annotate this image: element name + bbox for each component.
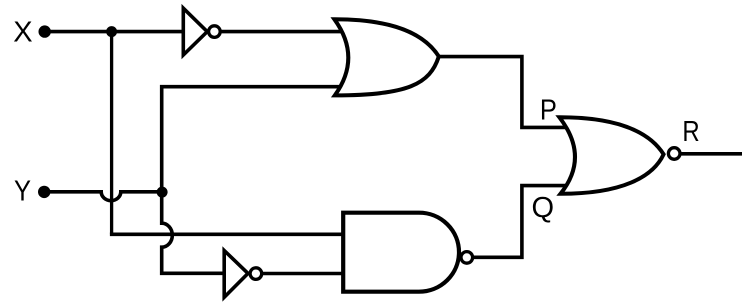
inverter U1 (NOT gate, top) <box>183 8 207 55</box>
wire: NOR gate output R <box>680 152 742 156</box>
wire: inverter U2 output to NAND bottom input <box>262 272 351 276</box>
wire: inverter U1 output to OR gate top input <box>220 30 356 34</box>
wire: NAND output to node Q into NOR gate <box>473 186 567 258</box>
NOR gate U5 (right) <box>559 117 663 194</box>
inverter U1 bubble <box>209 26 221 38</box>
wire: X branch to NAND top input <box>110 233 350 237</box>
OR gate U3 (top middle) <box>334 19 438 95</box>
junction dot on Y line <box>157 187 168 198</box>
NAND gate U4 (bottom middle) <box>343 213 459 292</box>
wire: X input to inverter U1 <box>45 30 184 34</box>
terminal dot X <box>39 25 51 37</box>
wire: Y input with hop over X branch <box>44 192 162 201</box>
NOR gate U5 bubble <box>668 148 680 160</box>
svg-text:Q: Q <box>532 192 555 224</box>
junction dot on X line <box>106 26 117 37</box>
terminal dot Y <box>38 186 50 198</box>
NAND gate U4 bubble <box>461 252 473 264</box>
wire: OR gate output to node P into NOR gate <box>437 57 566 128</box>
wire: X branch vertical down <box>110 32 113 235</box>
inverter U2 (NOT gate, bottom) <box>224 251 248 298</box>
svg-text:X: X <box>13 16 32 48</box>
wire: Y branch up to OR gate bottom input, down with hop to inverter U2 <box>162 87 356 274</box>
svg-text:P: P <box>540 95 557 127</box>
inverter U2 bubble <box>250 268 262 280</box>
svg-text:R: R <box>682 116 699 148</box>
svg-text:Y: Y <box>14 176 31 208</box>
